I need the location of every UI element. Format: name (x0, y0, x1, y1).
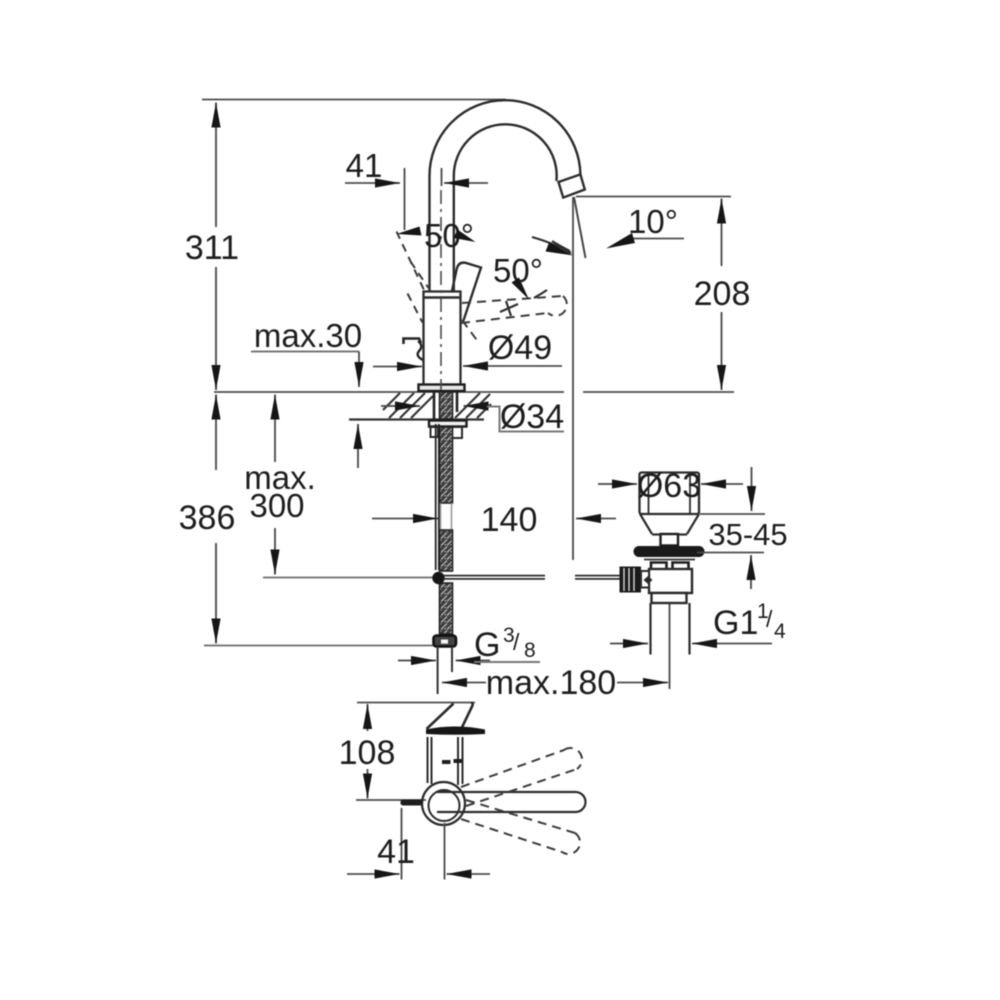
dim G 1 1/4 (610, 600, 786, 644)
rod clamp diamond (644, 576, 653, 584)
hose end pipe G3/8 (438, 647, 452, 695)
deck section hatch right (455, 393, 491, 418)
pop-up rod junction dot (432, 572, 444, 584)
svg-text:G1: G1 (713, 604, 758, 642)
50 deg label upper with arc arrows (397, 217, 476, 254)
plan body inner circle (429, 790, 460, 821)
dim 10 deg label and leader (552, 203, 684, 251)
dim 208 vertical dimension (576, 197, 750, 391)
dim 35-45 (697, 467, 788, 589)
lever dashed open-right position (461, 296, 567, 343)
open lever axis cross (500, 301, 518, 316)
flexible supply hose (braided) upper part (440, 427, 453, 503)
drain axis line (669, 604, 671, 689)
drain assembly (620, 473, 705, 690)
svg-text:Ø63: Ø63 (637, 467, 701, 505)
svg-text:386: 386 (179, 499, 236, 537)
svg-text:108: 108 (339, 734, 396, 772)
dim 108 (339, 704, 396, 799)
hose end fitting (434, 636, 457, 647)
dim max.180 (442, 664, 668, 702)
plan column dashes (442, 761, 462, 762)
plan pop-up rod stub (401, 800, 424, 806)
drain body lower band (652, 593, 687, 603)
plan lever front bar (dark) (426, 726, 485, 734)
svg-text:50°: 50° (424, 217, 474, 254)
svg-text:10°: 10° (628, 203, 678, 240)
dim diameter 49 (373, 329, 562, 367)
svg-text:41: 41 (377, 833, 415, 871)
svg-text:max.30: max.30 (254, 317, 362, 354)
drain body (649, 569, 692, 593)
mounting washer and nut (429, 421, 467, 439)
flexible supply hose (braided) lower part (440, 583, 453, 634)
water stream 10 deg slanted line (574, 197, 586, 258)
svg-text:300: 300 (249, 487, 304, 524)
dim max.30 (deck thickness) (251, 317, 362, 468)
deck section hatch left (383, 393, 433, 418)
plan body outer circle (422, 782, 465, 825)
drain taper neck (640, 514, 699, 534)
dim G 3/8 (398, 624, 540, 664)
water stream vertical extension line (572, 197, 574, 560)
lever solid (mid position) (452, 263, 481, 322)
plan lever solid (437, 792, 586, 812)
dim max.300 vertical dimension (244, 395, 437, 578)
hose break gap (441, 503, 452, 530)
svg-text:Ø49: Ø49 (488, 329, 552, 367)
dim 140 (372, 501, 616, 539)
50 deg label lower with arc arrows (493, 237, 573, 300)
top reference line (spout top level) (202, 99, 506, 101)
drain body top brackets (651, 563, 667, 570)
drain tailpipe (649, 603, 651, 655)
dim 41 (plan) (347, 808, 490, 880)
svg-text:41: 41 (346, 147, 383, 184)
drain plug stem (661, 534, 679, 546)
plan bottom reference line (356, 799, 426, 801)
plan lever dashed upper (461, 748, 582, 806)
pop-up rod knob on body (404, 339, 424, 361)
svg-text:Ø34: Ø34 (500, 398, 564, 436)
deck bottom line (349, 418, 484, 420)
svg-text:max.180: max.180 (486, 664, 616, 702)
pop-up rod vertical (435, 424, 437, 570)
spout aerator tip band (559, 174, 585, 197)
dim diameter 63 (598, 467, 743, 505)
body axis dash-dot line (440, 190, 442, 390)
svg-text:208: 208 (694, 275, 751, 313)
svg-text:/: / (766, 606, 773, 632)
dim 41 (top, lever to axis) (345, 147, 488, 230)
faucet body (419, 292, 465, 392)
spout tube (arc + straight left leg) (429, 100, 580, 291)
svg-text:35-45: 35-45 (708, 517, 787, 552)
deck line (counter top) (214, 391, 564, 393)
svg-text:140: 140 (481, 501, 538, 539)
dim diameter 34 with leader (381, 398, 564, 436)
svg-text:4: 4 (774, 620, 786, 643)
threaded shank through deck (434, 392, 457, 419)
svg-text:8: 8 (524, 639, 536, 662)
dim 386 vertical dimension (179, 395, 436, 646)
lever dashed up-left position (397, 232, 429, 323)
pop-up rod horizontal (443, 576, 620, 579)
plan lever dashed lower (461, 800, 580, 854)
plan top reference line (357, 702, 475, 704)
svg-text:311: 311 (185, 229, 239, 267)
flexible supply hose (braided) middle part (440, 530, 453, 571)
drain flange (dark) (634, 546, 705, 557)
knurled side knob (620, 567, 642, 593)
svg-text:/: / (513, 629, 520, 655)
svg-text:G: G (474, 626, 500, 664)
drain dome cap (640, 473, 700, 515)
plan spout band (427, 703, 473, 734)
plan body column (428, 737, 463, 785)
dim 311 vertical dimension (185, 103, 239, 391)
